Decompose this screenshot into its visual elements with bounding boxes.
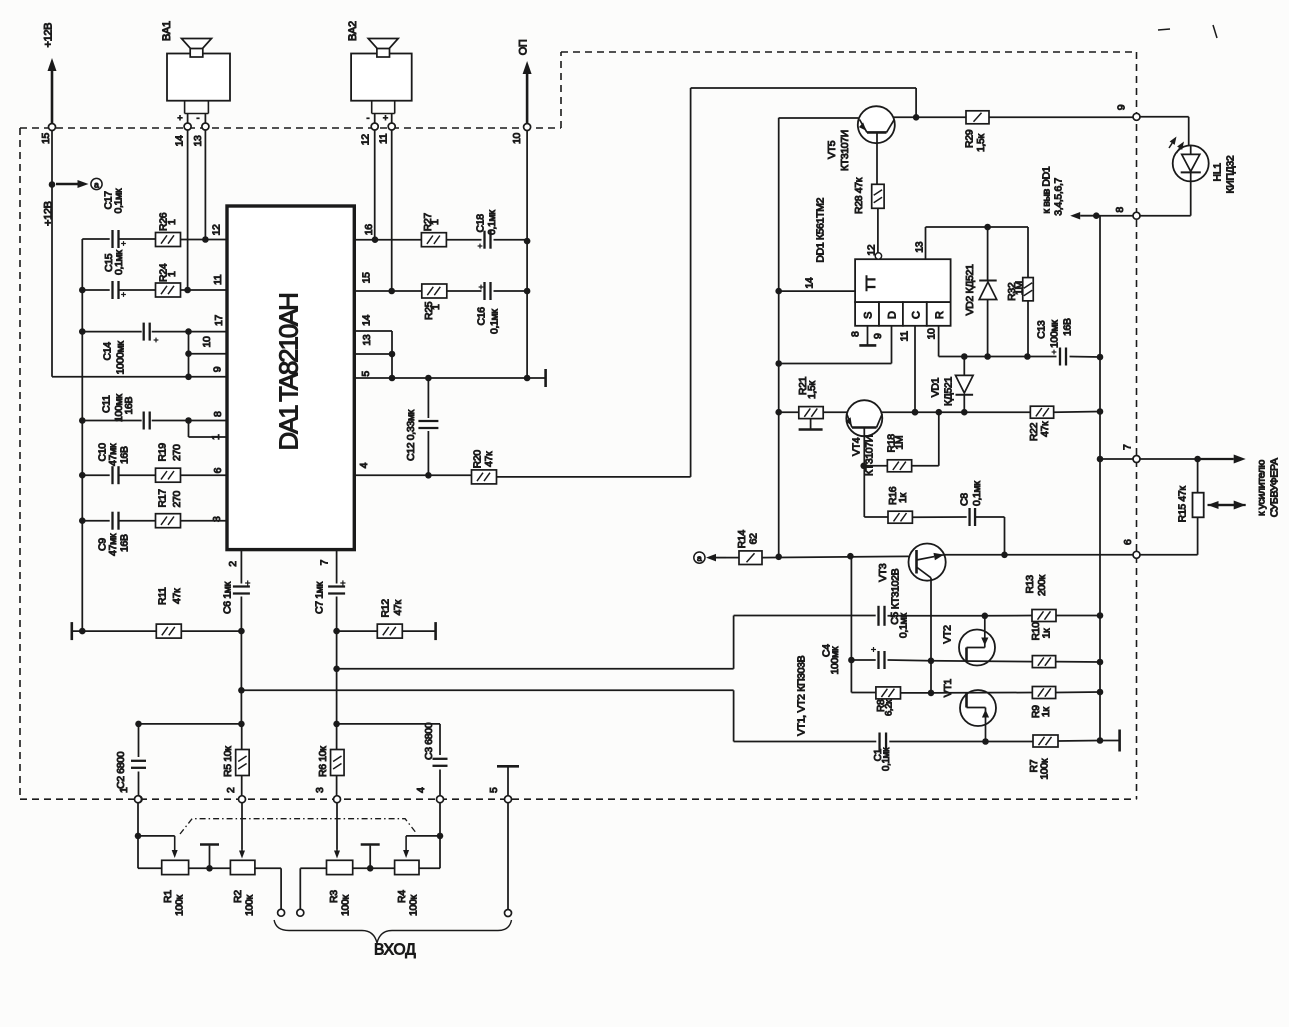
svg-text:C11: C11 [101,395,113,413]
svg-text:17: 17 [213,315,225,326]
svg-text:VT2: VT2 [942,625,954,644]
svg-text:R2: R2 [232,890,244,903]
svg-text:8: 8 [850,331,862,337]
svg-text:11: 11 [212,274,224,285]
svg-text:0,1мк: 0,1мк [486,210,498,235]
svg-text:4: 4 [358,462,370,468]
svg-text:0,1мк: 0,1мк [898,613,910,638]
svg-text:16В: 16В [1062,318,1074,336]
svg-text:15: 15 [40,133,52,144]
svg-text:14: 14 [804,277,816,288]
svg-text:+: + [383,113,388,123]
svg-text:ТТ: ТТ [863,275,878,291]
svg-text:R28 47к: R28 47к [853,177,865,214]
svg-text:13: 13 [361,334,373,345]
svg-text:VD2 КД521: VD2 КД521 [964,264,976,315]
svg-text:1к: 1к [1041,628,1053,638]
svg-text:4: 4 [415,787,427,793]
svg-text:100к: 100к [407,895,419,916]
svg-text:DA1 TA8210АН: DA1 TA8210АН [274,294,304,451]
svg-text:R3: R3 [328,890,340,903]
svg-text:12: 12 [866,244,878,255]
svg-text:HL1: HL1 [1212,163,1224,182]
svg-text:16: 16 [363,224,375,235]
svg-text:9: 9 [1116,104,1128,110]
svg-text:100к: 100к [339,895,351,916]
svg-text:200к: 200к [1036,575,1048,596]
svg-text:R5 10к: R5 10к [222,746,234,777]
svg-text:R6 10к: R6 10к [317,746,329,777]
svg-text:1000мк: 1000мк [115,341,127,375]
svg-text:16В: 16В [123,397,135,415]
svg-text:47к: 47к [483,451,495,467]
svg-text:8: 8 [1114,207,1126,213]
svg-text:13: 13 [914,241,926,252]
svg-text:R14: R14 [736,530,748,549]
svg-text:1: 1 [118,787,130,793]
svg-text:R11: R11 [157,587,169,605]
svg-text:VD1: VD1 [930,377,942,397]
svg-text:3,4,5,6,7: 3,4,5,6,7 [1053,177,1065,215]
svg-text:0,1мк: 0,1мк [489,309,501,334]
svg-text:1: 1 [166,271,178,277]
svg-text:100мк: 100мк [829,646,841,674]
svg-text:C: C [911,311,923,319]
svg-text:47к: 47к [171,588,183,604]
svg-text:VT1: VT1 [942,679,954,698]
svg-text:7: 7 [319,559,331,565]
svg-text:1: 1 [430,304,442,310]
svg-text:а: а [94,180,99,190]
svg-text:C6 1мк: C6 1мк [222,581,234,614]
svg-text:R20: R20 [472,450,484,469]
svg-text:ВХОД: ВХОД [374,942,416,959]
svg-text:5: 5 [360,371,372,377]
svg-text:2: 2 [227,561,239,567]
svg-text:3: 3 [314,787,326,793]
svg-text:0,1мк: 0,1мк [113,250,125,275]
svg-text:КТ3102В: КТ3102В [890,568,902,609]
svg-text:1М: 1М [1014,281,1026,295]
svg-text:R12: R12 [380,599,392,618]
svg-text:C14: C14 [102,342,114,361]
svg-text:к усилителю: к усилителю [1256,459,1268,516]
svg-text:+12В: +12В [43,201,55,226]
svg-text:C18: C18 [475,214,487,233]
svg-text:1к: 1к [1040,707,1052,717]
svg-text:BA1: BA1 [161,21,173,41]
svg-text:47мк: 47мк [107,443,119,466]
svg-text:8: 8 [212,411,224,417]
svg-text:1,5к: 1,5к [806,380,818,399]
svg-text:1М: 1М [894,436,906,450]
svg-text:VT1, VT2 КП303В: VT1, VT2 КП303В [796,655,808,736]
svg-text:14: 14 [174,135,186,146]
svg-text:6: 6 [212,467,224,473]
svg-text:100к: 100к [174,895,186,916]
svg-text:6,2к: 6,2к [884,699,895,716]
svg-text:1: 1 [429,219,441,225]
svg-text:0,1мк: 0,1мк [113,188,125,213]
svg-text:270: 270 [171,444,183,461]
svg-text:1: 1 [210,434,222,440]
svg-text:9: 9 [212,366,224,372]
svg-text:C13: C13 [1036,320,1048,339]
svg-text:R29: R29 [964,129,976,148]
svg-text:R15 47к: R15 47к [1177,486,1189,523]
svg-text:к выв DD1: к выв DD1 [1041,166,1053,213]
svg-text:C3 6800: C3 6800 [423,722,435,760]
svg-text:C2 6800: C2 6800 [115,751,127,789]
svg-text:КД521: КД521 [943,376,955,406]
svg-text:КИПД32: КИПД32 [1225,155,1237,193]
svg-text:СУБВУФЕРА: СУБВУФЕРА [1269,458,1281,517]
svg-text:13: 13 [192,135,204,146]
svg-text:R19: R19 [157,443,169,462]
svg-text:-: - [367,113,370,123]
svg-text:КТ3107И: КТ3107И [839,130,851,171]
svg-text:12: 12 [211,224,223,235]
svg-text:VT5: VT5 [826,140,838,159]
svg-text:10: 10 [926,328,938,339]
svg-text:R1: R1 [162,890,174,903]
svg-text:11: 11 [899,331,911,342]
svg-text:+: + [177,113,182,123]
svg-text:1к: 1к [897,493,909,503]
svg-text:100к: 100к [1039,758,1051,779]
svg-text:10: 10 [511,133,523,144]
svg-text:VT4: VT4 [851,437,863,456]
svg-text:ОП: ОП [518,39,530,55]
svg-text:R13: R13 [1024,575,1036,594]
svg-text:10: 10 [201,336,213,347]
svg-text:C8: C8 [959,493,971,506]
svg-text:VT3: VT3 [877,563,889,582]
svg-text:6: 6 [1122,539,1134,545]
svg-text:14: 14 [361,315,373,326]
svg-text:R17: R17 [157,489,169,508]
svg-text:1,5к: 1,5к [975,133,987,152]
svg-text:16В: 16В [119,446,131,464]
svg-text:R: R [934,311,946,319]
svg-text:100к: 100к [243,895,255,916]
svg-text:1: 1 [166,219,178,225]
svg-text:100мк: 100мк [1049,320,1061,348]
svg-text:7: 7 [1122,444,1134,450]
svg-text:КТ3107И: КТ3107И [864,435,876,476]
svg-text:C7 1мк: C7 1мк [314,581,326,614]
svg-text:-: - [197,113,200,123]
svg-text:R4: R4 [396,890,408,903]
svg-text:DD1 К561ТМ2: DD1 К561ТМ2 [815,197,827,262]
svg-text:11: 11 [378,133,390,144]
svg-text:0,1мк: 0,1мк [881,747,892,771]
svg-text:47к: 47к [1039,421,1051,437]
svg-text:0,1мк: 0,1мк [971,481,983,506]
svg-text:62: 62 [748,533,760,544]
svg-text:270: 270 [171,491,183,508]
svg-text:C16: C16 [476,307,488,326]
svg-text:+12В: +12В [43,23,55,48]
svg-text:5: 5 [488,787,500,793]
svg-text:2: 2 [225,787,237,793]
svg-text:S: S [863,312,875,319]
svg-text:12: 12 [360,134,372,145]
svg-text:47к: 47к [392,600,404,616]
svg-text:47мк: 47мк [107,533,119,556]
svg-text:9: 9 [872,333,884,339]
svg-text:BA2: BA2 [347,21,359,41]
svg-text:C12 0,33мк: C12 0,33мк [405,409,417,461]
svg-text:D: D [887,311,899,319]
svg-text:3: 3 [211,516,223,522]
svg-text:16В: 16В [119,534,131,552]
svg-text:15: 15 [361,272,373,283]
svg-text:а: а [697,553,702,563]
